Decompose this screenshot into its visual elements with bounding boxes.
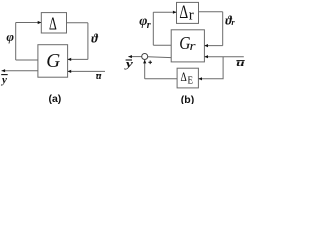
plus sign at sum junction	[148, 61, 152, 65]
block Gr (diagram b)	[171, 30, 204, 62]
label ϑr (b)	[225, 13, 235, 27]
wire ȳ output	[2, 70, 38, 72]
svg-text:G: G	[46, 51, 60, 72]
svg-text:r: r	[189, 8, 194, 24]
svg-text:Δ: Δ	[49, 13, 57, 33]
arrowhead ū into Gr (b)	[204, 55, 208, 58]
wire ϑ: Δ right output	[67, 22, 88, 24]
svg-text:r: r	[147, 20, 151, 31]
wire ū input (b)	[204, 56, 243, 58]
wire φr: Gr left output	[153, 44, 171, 46]
wire φ riser up	[15, 23, 17, 61]
svg-text:u: u	[236, 58, 244, 68]
label ū (b)	[236, 58, 245, 68]
arrowhead ū into ΔE (b)	[198, 77, 202, 80]
wire sum output to Gr left	[148, 56, 171, 59]
wire ū input	[68, 70, 105, 72]
svg-text:Δ: Δ	[181, 69, 187, 84]
wire φr into Δr	[153, 11, 176, 13]
arrowhead φr into Δr (b)	[173, 11, 177, 14]
wire ϑ riser down	[87, 23, 89, 60]
wire φ into Δ	[16, 22, 42, 24]
label ȳ (a)	[0, 74, 8, 86]
svg-text:φ: φ	[6, 29, 14, 44]
svg-text:Δ: Δ	[179, 3, 188, 23]
svg-text:y: y	[124, 59, 133, 70]
arrowhead into Δ (a)	[38, 21, 42, 24]
wire φr riser up	[152, 12, 154, 45]
block ΔE (diagram b)	[177, 68, 198, 88]
block Δr (diagram b)	[177, 2, 199, 23]
label ū (a)	[96, 71, 102, 82]
svg-text:(a): (a)	[48, 93, 61, 104]
arrowhead ϑ into G (a)	[68, 58, 72, 61]
wire ϑr: Δr right output	[199, 11, 223, 13]
wire ϑr riser down	[222, 12, 224, 46]
wire ϑ into G	[68, 58, 88, 60]
node sum junction circle	[142, 54, 148, 60]
wire ϑr into Gr	[204, 45, 222, 47]
svg-text:u: u	[96, 71, 102, 82]
arrowhead ȳ output (a)	[2, 69, 6, 72]
wire ΔE output riser up to sum	[144, 60, 146, 79]
label ȳ (b)	[124, 59, 133, 70]
arrowhead ΔE output into sum junction	[143, 60, 146, 64]
svg-text:(b): (b)	[181, 94, 194, 104]
block Δ (diagram a)	[41, 13, 66, 33]
label Δr (b)	[179, 3, 193, 24]
wire ȳ output (b)	[128, 56, 141, 58]
wire φ: G left output to riser	[16, 59, 38, 61]
label ΔE (b)	[181, 69, 194, 86]
label φr (b)	[139, 14, 151, 31]
svg-text:y: y	[0, 74, 7, 86]
wire ū branch down to ΔE	[198, 57, 223, 79]
svg-text:E: E	[188, 76, 194, 87]
arrowhead ϑr into Gr (b)	[204, 44, 208, 47]
arrowhead ȳ output (b)	[128, 55, 132, 58]
label Gr (b)	[179, 33, 196, 53]
block G (diagram a)	[38, 45, 68, 77]
arrowhead ū into G (a)	[68, 70, 72, 73]
wire ΔE output left	[145, 78, 177, 80]
